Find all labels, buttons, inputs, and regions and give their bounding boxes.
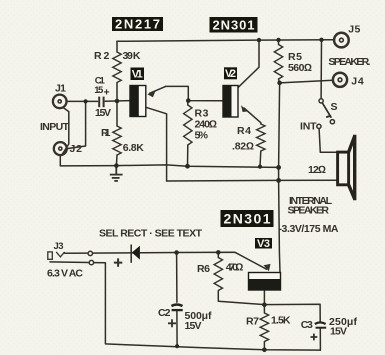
node ground bus / supply line [276,165,281,170]
svg-text:12Ω: 12Ω [308,164,326,176]
svg-text:S: S [331,101,338,113]
wire V3 base node to C3 [264,304,320,321]
svg-text:INT: INT [300,121,317,133]
resistor R4 .82ohm [257,124,265,151]
svg-text:470Ω: 470Ω [226,261,244,273]
node R5 top [276,38,280,42]
transistor V3 2N301 output [248,264,281,290]
wire J1 tip to C1 [67,100,98,102]
ground symbol [110,166,123,181]
resistor R2 39K [113,52,121,83]
node V3 base / R6 / R7 / C3 [262,302,267,307]
svg-text:R6: R6 [197,263,210,275]
resistor R7 1.5K [260,313,268,342]
node -3.3V rail / supply line [276,178,281,183]
svg-text:2N217: 2N217 [115,17,160,32]
svg-text:V2: V2 [225,68,236,80]
PSU interlock contact lower [89,260,93,264]
transistor V2 2N301 driver [223,85,249,118]
svg-text:SPEAKER: SPEAKER [288,205,330,217]
wire R1 bottom lead [115,155,118,166]
wire R3 top lead [187,101,189,105]
wire R3 bottom lead [187,145,189,166]
resistor R5 560ohm [274,45,282,80]
wire R5 bottom lead [279,79,280,83]
wire R5 top lead [278,40,280,45]
wire R7 bottom lead [263,342,265,350]
wire R6 bottom lead to V3 base node [218,291,264,305]
C3 polarity plus [311,334,318,341]
svg-text:1.5K: 1.5K [271,315,291,327]
capacitor C2 500uF plates [171,304,182,310]
capacitor C3 250uF plates [315,322,326,327]
svg-text:6.3 V AC: 6.3 V AC [47,267,83,279]
wire J2 tip branch from input line [67,101,86,148]
wire V2 collector up to top rail [238,40,259,88]
jack J5 [334,33,349,48]
wire supply vertical from R5 node down to V3 collector [279,83,280,273]
wire V1 collector down to -3.3V rail [146,107,167,181]
wire speaker-jack branch down to switch [320,40,322,99]
node R3 ground bus [185,164,190,169]
svg-text:J3: J3 [54,241,64,252]
wire INT contact down to internal speaker [319,129,338,153]
svg-text:15V: 15V [95,107,111,119]
svg-text:R1: R1 [101,127,111,139]
node R1 ground [114,163,119,168]
node V1 base / C1 / R2 / R1 [115,99,120,104]
wire R1 top lead [116,101,118,126]
switch arm tip [327,116,330,117]
svg-text:39 K: 39 K [123,50,141,62]
svg-text:+: + [104,87,110,99]
wire PSU top from J3 to V3 emitter [65,252,267,269]
svg-text:C3: C3 [301,319,313,331]
resistor R1 6.8K [113,126,121,155]
svg-text:INPUT: INPUT [40,121,70,133]
wire R6 top lead [217,252,219,257]
capacitor C1 15uF plates [99,97,103,108]
wire R4 bottom lead [259,151,262,167]
node R4 ground bus [258,165,262,169]
resistor R3 240ohm [184,105,192,145]
label box 2N217 [112,17,163,32]
node C2 bottom rail [175,344,179,348]
svg-text:6.8K: 6.8K [123,142,144,154]
wire V3 base lead [263,290,265,305]
svg-text:V1: V1 [132,69,143,81]
node R7 bottom rail [262,348,267,353]
jack J2 [54,142,67,155]
node V2 collector / output rail [257,38,261,42]
wire C2 top lead [176,253,178,303]
wire ground bus from J2 to supply node [60,155,278,167]
jack J4 [333,73,347,87]
jack J1 [53,95,67,109]
label box V2 [224,67,237,80]
label box V3 [255,238,272,250]
wire R7 top lead [263,305,265,313]
diode SEL RECT [131,245,140,263]
svg-text:-3.3V/175 MA: -3.3V/175 MA [279,223,339,235]
svg-text:15V: 15V [330,325,347,337]
wire C2 bottom lead [176,311,178,346]
PSU interlock contact upper [88,251,92,255]
C2 polarity plus [168,319,176,327]
svg-text:R5: R5 [288,51,302,63]
internal speaker 12ohm [338,135,355,200]
svg-text:SPEAKER.: SPEAKER. [328,56,370,68]
connector J3 6.3VAC [48,252,65,259]
svg-text:2N301: 2N301 [224,211,271,227]
wire V1 emitter diagonal [150,86,166,93]
wire C3 bottom lead [319,328,321,350]
wire C1 to V1 base with node [105,100,130,103]
svg-text:J1: J1 [55,83,66,95]
svg-text:.82Ω: .82Ω [232,141,254,153]
node V1 emitter / R3 / V2 base [186,98,191,103]
svg-text:J2: J2 [70,143,83,155]
svg-text:15V: 15V [185,320,202,332]
svg-text:J5: J5 [348,24,360,36]
switch S contacts [317,99,335,129]
svg-text:5%: 5% [195,130,209,142]
svg-text:R7: R7 [246,315,259,327]
label box 2N301 top [210,17,258,33]
svg-text:R4: R4 [237,125,251,137]
label box 2N301 lower [221,210,274,227]
wire R2 stem from top rail [116,41,118,52]
svg-text:240Ω: 240Ω [195,119,218,131]
wire J4 to R5 bottom node [280,80,333,83]
wire J3 bottom to bottom rail [50,262,320,350]
diode polarity plus [114,258,122,266]
wire switch arm [322,103,331,118]
svg-text:C 2: C 2 [158,307,171,319]
svg-text:V3: V3 [257,238,270,250]
resistor R6 470ohm [214,258,222,291]
svg-text:2N301: 2N301 [213,18,255,33]
wire J1 sleeve down to J2 [62,107,69,154]
transistor V1 2N217 [130,85,156,117]
wire V2 emitter diagonal to R4 [244,108,261,124]
node C2 top [174,250,179,255]
label box V1 [131,68,145,81]
svg-text:SEL RECT · SEE TEXT: SEL RECT · SEE TEXT [99,228,203,240]
node R5 bottom / J4 [277,81,282,86]
svg-text:J4: J4 [351,75,364,87]
svg-text:560Ω: 560Ω [288,62,312,74]
wire -3.3V rail to internal speaker [167,179,338,182]
wire R2 bottom lead [116,83,118,102]
node R6 top [216,250,221,255]
node input jack tie [84,99,88,103]
wire V1 emitter to R3 top and V2 base [166,86,223,100]
wire top rail (V2 collector / output bus) [117,40,333,42]
node J5 / switch branch [319,38,323,42]
